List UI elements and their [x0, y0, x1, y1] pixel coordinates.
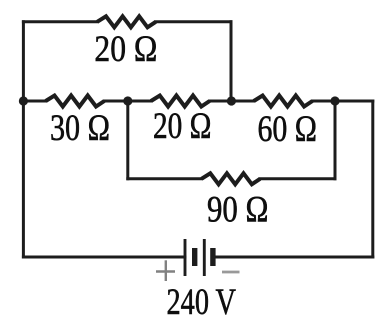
- wire: left vertical (top-left corner down to bottom wire): [22, 22, 25, 257]
- resistor 20 ohm (top branch): [97, 16, 156, 27]
- node B (junction dot between 30 and 20 ohm): [123, 96, 132, 105]
- wire: 20-ohm to 60-ohm (through node C): [210, 100, 254, 103]
- battery minus sign: [222, 271, 240, 274]
- wire: node A to 30-ohm resistor: [23, 100, 45, 103]
- wire: node B vertical down to 90-ohm branch: [126, 101, 129, 179]
- svg-text:240 V: 240 V: [167, 281, 237, 322]
- node D (junction dot right of 60 ohm): [330, 96, 339, 105]
- wire: 90-ohm branch right segment: [260, 177, 335, 180]
- resistor 90 ohm: [202, 173, 261, 184]
- battery short thick plate 1: [192, 248, 197, 266]
- svg-text:20 Ω: 20 Ω: [94, 28, 157, 69]
- wire: bottom left segment to battery positive plate: [23, 256, 185, 259]
- battery long plate 1: [184, 239, 187, 276]
- wire: 30-ohm to 20-ohm (through node B): [104, 100, 151, 103]
- battery 240 V (two cells): [185, 239, 213, 276]
- wire: 60-ohm to node D and right: [312, 100, 372, 103]
- node A (junction dot, left end of middle row): [19, 96, 28, 105]
- svg-text:90 Ω: 90 Ω: [207, 189, 269, 230]
- svg-text:20 Ω: 20 Ω: [153, 105, 212, 146]
- wire: far right vertical down to bottom wire: [371, 101, 374, 257]
- resistor 30 ohm: [46, 96, 105, 107]
- battery plus sign: [156, 260, 175, 281]
- wire: bottom right segment from battery negative plate: [216, 256, 373, 259]
- svg-text:30 Ω: 30 Ω: [50, 107, 110, 148]
- wire: node D vertical down to 90-ohm branch: [334, 101, 337, 179]
- battery long plate 2: [203, 239, 206, 276]
- battery short thick plate 2: [210, 248, 215, 266]
- node C (junction dot between 20 and 60 ohm): [227, 96, 236, 105]
- wire: vertical from top branch down to node C: [230, 22, 233, 101]
- wire: top branch left segment: [23, 20, 97, 23]
- resistor 20 ohm (middle row): [151, 96, 210, 107]
- wire: 90-ohm branch left segment: [128, 177, 202, 180]
- wire: top branch right segment: [156, 20, 231, 23]
- resistor 60 ohm: [254, 96, 313, 107]
- svg-text:60 Ω: 60 Ω: [258, 108, 318, 149]
